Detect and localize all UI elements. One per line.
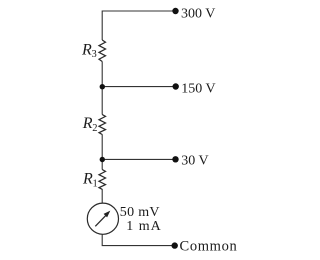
svg-text:R: R: [81, 41, 92, 58]
svg-text:150 V: 150 V: [181, 81, 215, 96]
svg-text:R: R: [82, 171, 93, 188]
wire: bottom vertical from meter to Common rail: [102, 234, 175, 245]
terminal dot 300 V: [172, 8, 178, 14]
wire: horizontal to 150 V terminal: [102, 86, 176, 88]
wire: vertical between R3 bottom and junction A: [101, 62, 103, 87]
meter needle: [95, 216, 105, 227]
wire: horizontal to 30 V terminal: [102, 158, 175, 160]
wire: top horizontal to 300 V terminal: [102, 11, 175, 40]
svg-text:Common: Common: [180, 239, 238, 255]
svg-text:1: 1: [93, 179, 98, 190]
svg-text:3: 3: [92, 49, 97, 60]
svg-text:2: 2: [92, 123, 97, 134]
resistor R2: [99, 115, 106, 135]
wire: vertical between R2 bottom and junction B: [101, 134, 103, 159]
terminal dot 150 V: [173, 83, 179, 89]
svg-text:50 mV: 50 mV: [120, 205, 160, 220]
wire: vertical between junction B and R1 top: [101, 160, 103, 170]
wire: vertical between R1 bottom and meter top: [101, 189, 103, 203]
resistor R1: [99, 170, 106, 190]
svg-text:R: R: [82, 115, 93, 132]
wire: vertical between junction A and R2 top: [101, 87, 103, 115]
terminal dot 30 V: [172, 156, 178, 162]
svg-text:1 mA: 1 mA: [126, 219, 162, 234]
svg-text:30 V: 30 V: [181, 154, 208, 169]
resistor R3: [99, 40, 106, 62]
junction node B: [100, 157, 105, 162]
meter U1 (moving-coil galvanometer): [87, 203, 118, 234]
terminal dot Common: [172, 242, 178, 248]
junction node A: [100, 84, 105, 89]
meter needle arrowhead: [104, 211, 111, 218]
svg-text:300 V: 300 V: [181, 6, 215, 21]
